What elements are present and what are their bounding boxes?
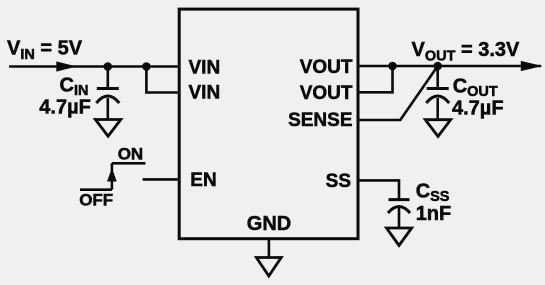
- pin label VIN (lower): [189, 82, 221, 103]
- svg-text:OFF: OFF: [79, 191, 113, 210]
- ground (COUT): [425, 120, 450, 137]
- capacitor CSS: [388, 200, 410, 228]
- wire: VIN input rail: [9, 65, 179, 68]
- wire: VOUT output rail: [358, 65, 541, 68]
- ground (CIN): [95, 120, 120, 137]
- svg-text:SENSE: SENSE: [288, 110, 352, 131]
- EN waveform: OFF level line: [80, 188, 112, 191]
- input flow arrow: [56, 61, 76, 71]
- svg-text:SS: SS: [326, 171, 351, 192]
- pin label VIN (upper): [189, 57, 221, 78]
- ground (CSS): [387, 228, 412, 246]
- ground (GND pin): [256, 258, 281, 277]
- node: junction at CIN: [104, 62, 113, 71]
- label CSS: [416, 181, 450, 206]
- svg-text:GND: GND: [247, 213, 291, 235]
- capacitor COUT: [426, 66, 449, 120]
- svg-text:VOUT: VOUT: [300, 57, 353, 78]
- pin label VOUT (lower): [300, 83, 353, 104]
- svg-text:VOUT: VOUT: [300, 83, 353, 104]
- svg-text:EN: EN: [190, 170, 216, 191]
- label ON: [118, 144, 144, 163]
- svg-text:VIN: VIN: [189, 57, 221, 78]
- capacitor CIN: [96, 67, 119, 120]
- wire: second VOUT pin tie: [358, 66, 393, 92]
- wire: to second VIN pin: [146, 67, 179, 93]
- pin label VOUT (upper): [300, 57, 353, 78]
- svg-text:4.7µF: 4.7µF: [39, 96, 91, 118]
- label CIN value 4.7uF: [39, 96, 91, 118]
- node: junction VOUT2 tie: [388, 62, 397, 71]
- node: junction at COUT / SENSE: [433, 62, 442, 71]
- wire: GND pin stub: [268, 239, 271, 258]
- label VIN = 5V: [7, 38, 83, 64]
- svg-text:ON: ON: [118, 144, 144, 163]
- svg-text:VIN: VIN: [189, 82, 221, 103]
- svg-text:1nF: 1nF: [416, 203, 452, 225]
- label CSS value 1nF: [416, 203, 452, 225]
- node: junction to second VIN: [142, 62, 151, 71]
- output flow arrow: [521, 61, 543, 71]
- wire: EN pin stub: [143, 178, 180, 181]
- wire: SS pin to CSS: [358, 180, 399, 199]
- pin label EN: [190, 170, 216, 191]
- EN waveform: rising edge: [111, 163, 114, 189]
- pin label GND: [247, 213, 291, 235]
- svg-text:VIN = 5V: VIN = 5V: [7, 38, 83, 64]
- label COUT value 4.7uF: [452, 97, 504, 119]
- pin label SENSE: [288, 110, 352, 131]
- EN waveform: ON level line: [112, 162, 145, 165]
- label VOUT = 3.3V: [412, 39, 521, 65]
- EN waveform: up arrow: [107, 168, 117, 182]
- label OFF: [79, 191, 113, 210]
- wire: SENSE feedback: [358, 66, 438, 120]
- label CIN: [60, 74, 89, 99]
- pin label SS: [326, 171, 351, 192]
- svg-text:4.7µF: 4.7µF: [452, 97, 504, 119]
- IC U1 regulator body: [179, 9, 358, 239]
- label COUT: [453, 76, 498, 101]
